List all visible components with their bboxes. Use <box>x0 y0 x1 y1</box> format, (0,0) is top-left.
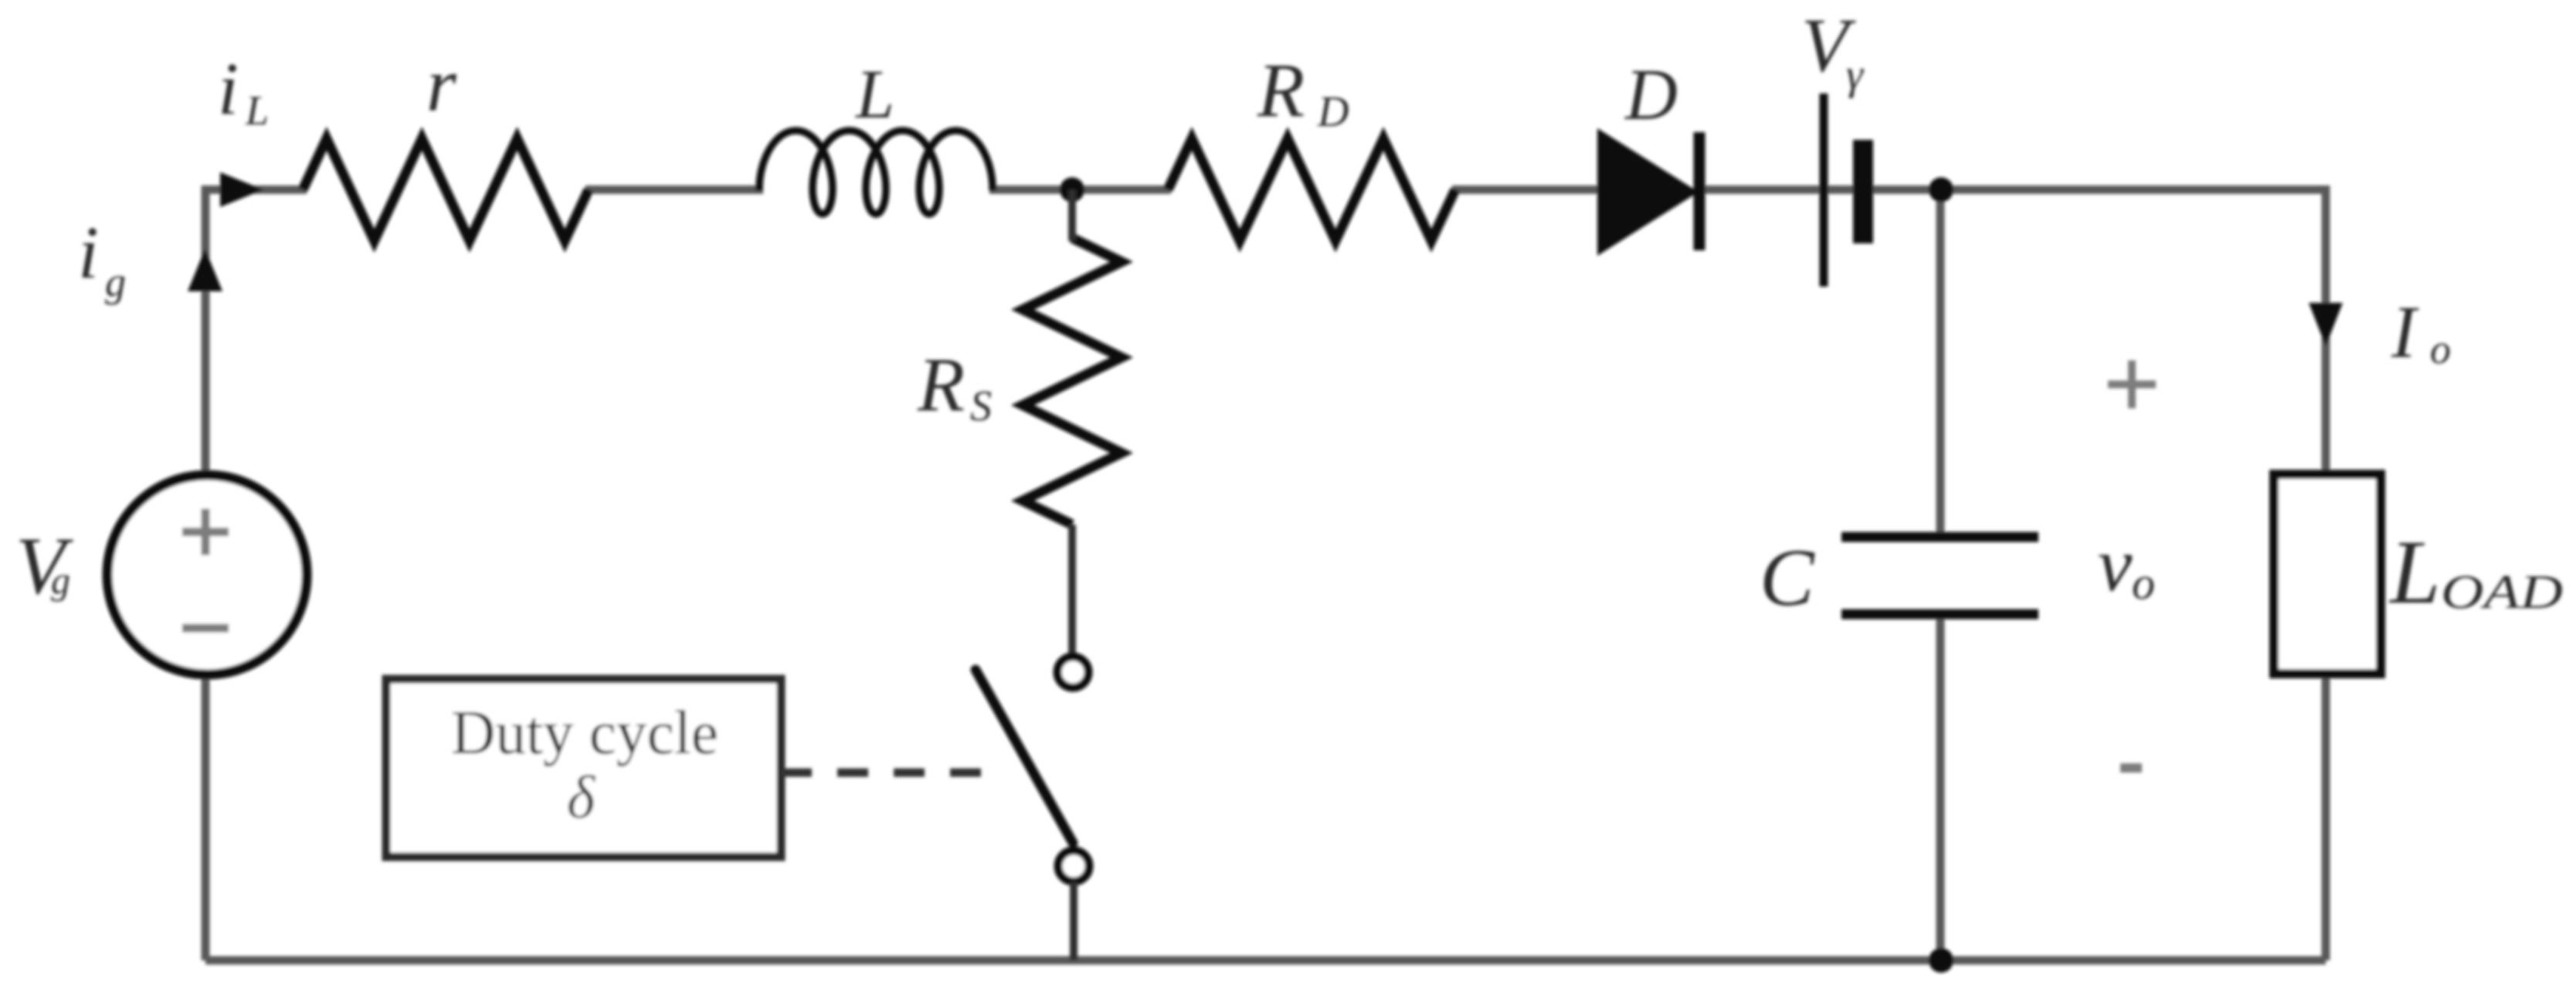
arrow i_L <box>220 172 263 207</box>
svg-text:OAD: OAD <box>2441 566 2563 619</box>
svg-text:S: S <box>970 382 992 430</box>
svg-text:g: g <box>51 559 70 602</box>
output plus sign <box>2108 361 2156 409</box>
node dot A (R_S junction) <box>1060 178 1084 202</box>
svg-text:Duty cycle: Duty cycle <box>451 699 718 767</box>
svg-text:D: D <box>1624 55 1678 135</box>
inductor L <box>759 131 993 214</box>
svg-text:r: r <box>426 42 457 127</box>
svg-text:o: o <box>2430 326 2451 372</box>
wire capacitor lower lead <box>1936 615 1945 960</box>
svg-text:I: I <box>2391 290 2419 373</box>
R_S lower stub to switch <box>1068 525 1076 657</box>
svg-text:o: o <box>2132 558 2155 609</box>
svg-text:γ: γ <box>1846 51 1865 99</box>
resistor R_D <box>1168 139 1455 241</box>
source minus sign <box>182 624 229 633</box>
dashed control line <box>781 769 981 777</box>
svg-text:i: i <box>78 211 99 294</box>
resistor r <box>303 139 589 241</box>
wire diode bar to right corner through battery <box>1704 185 2326 194</box>
source plus sign <box>182 509 229 555</box>
wire right vertical lower (LOAD bottom to bottom wire) <box>2322 669 2330 960</box>
wire between r and inductor L <box>585 185 763 194</box>
svg-text:R: R <box>917 341 965 427</box>
node dot B (capacitor junction top) <box>1929 178 1953 202</box>
wire bottom horizontal <box>205 956 2326 965</box>
node dot C (capacitor junction bottom) <box>1929 948 1953 973</box>
arrow I_o <box>2309 303 2343 346</box>
svg-text:L: L <box>2388 521 2441 623</box>
output minus sign <box>2120 763 2142 773</box>
R_S upper stub from node <box>1068 190 1076 242</box>
wire left vertical from source bottom to bottom wire <box>202 674 210 960</box>
svg-text:C: C <box>1760 532 1815 623</box>
switch top contact circle <box>1057 657 1088 688</box>
svg-text:i: i <box>218 47 239 130</box>
switch bottom contact circle <box>1058 851 1089 882</box>
switch bottom lead to ground wire <box>1070 882 1078 960</box>
source V_g circle <box>107 475 307 674</box>
svg-text:L: L <box>245 87 269 134</box>
wire right vertical upper (to LOAD top) <box>2322 185 2330 479</box>
battery V_gamma short plate <box>1853 140 1873 243</box>
arrow i_g <box>188 249 222 291</box>
capacitor C top plate <box>1841 532 2038 542</box>
diode D triangle <box>1597 128 1699 256</box>
wire left vertical from top corner to source top <box>202 185 210 476</box>
capacitor C bottom plate <box>1841 610 2038 620</box>
duty cycle box <box>386 679 781 857</box>
wire top left horizontal <box>205 185 307 194</box>
svg-text:v: v <box>2098 521 2133 607</box>
diode D cathode bar <box>1694 132 1705 250</box>
svg-text:R: R <box>1257 47 1305 133</box>
svg-text:δ: δ <box>567 763 596 831</box>
svg-text:L: L <box>854 56 894 133</box>
switch lever <box>976 670 1073 843</box>
wire between R_D and diode <box>1452 185 1600 194</box>
svg-text:g: g <box>105 259 126 305</box>
LOAD box <box>2274 474 2381 674</box>
wire between inductor and R_D with node <box>989 185 1171 194</box>
resistor R_S <box>1023 238 1122 525</box>
svg-text:D: D <box>1317 88 1349 136</box>
battery V_gamma long plate <box>1820 93 1828 287</box>
wire capacitor upper lead <box>1936 189 1945 536</box>
